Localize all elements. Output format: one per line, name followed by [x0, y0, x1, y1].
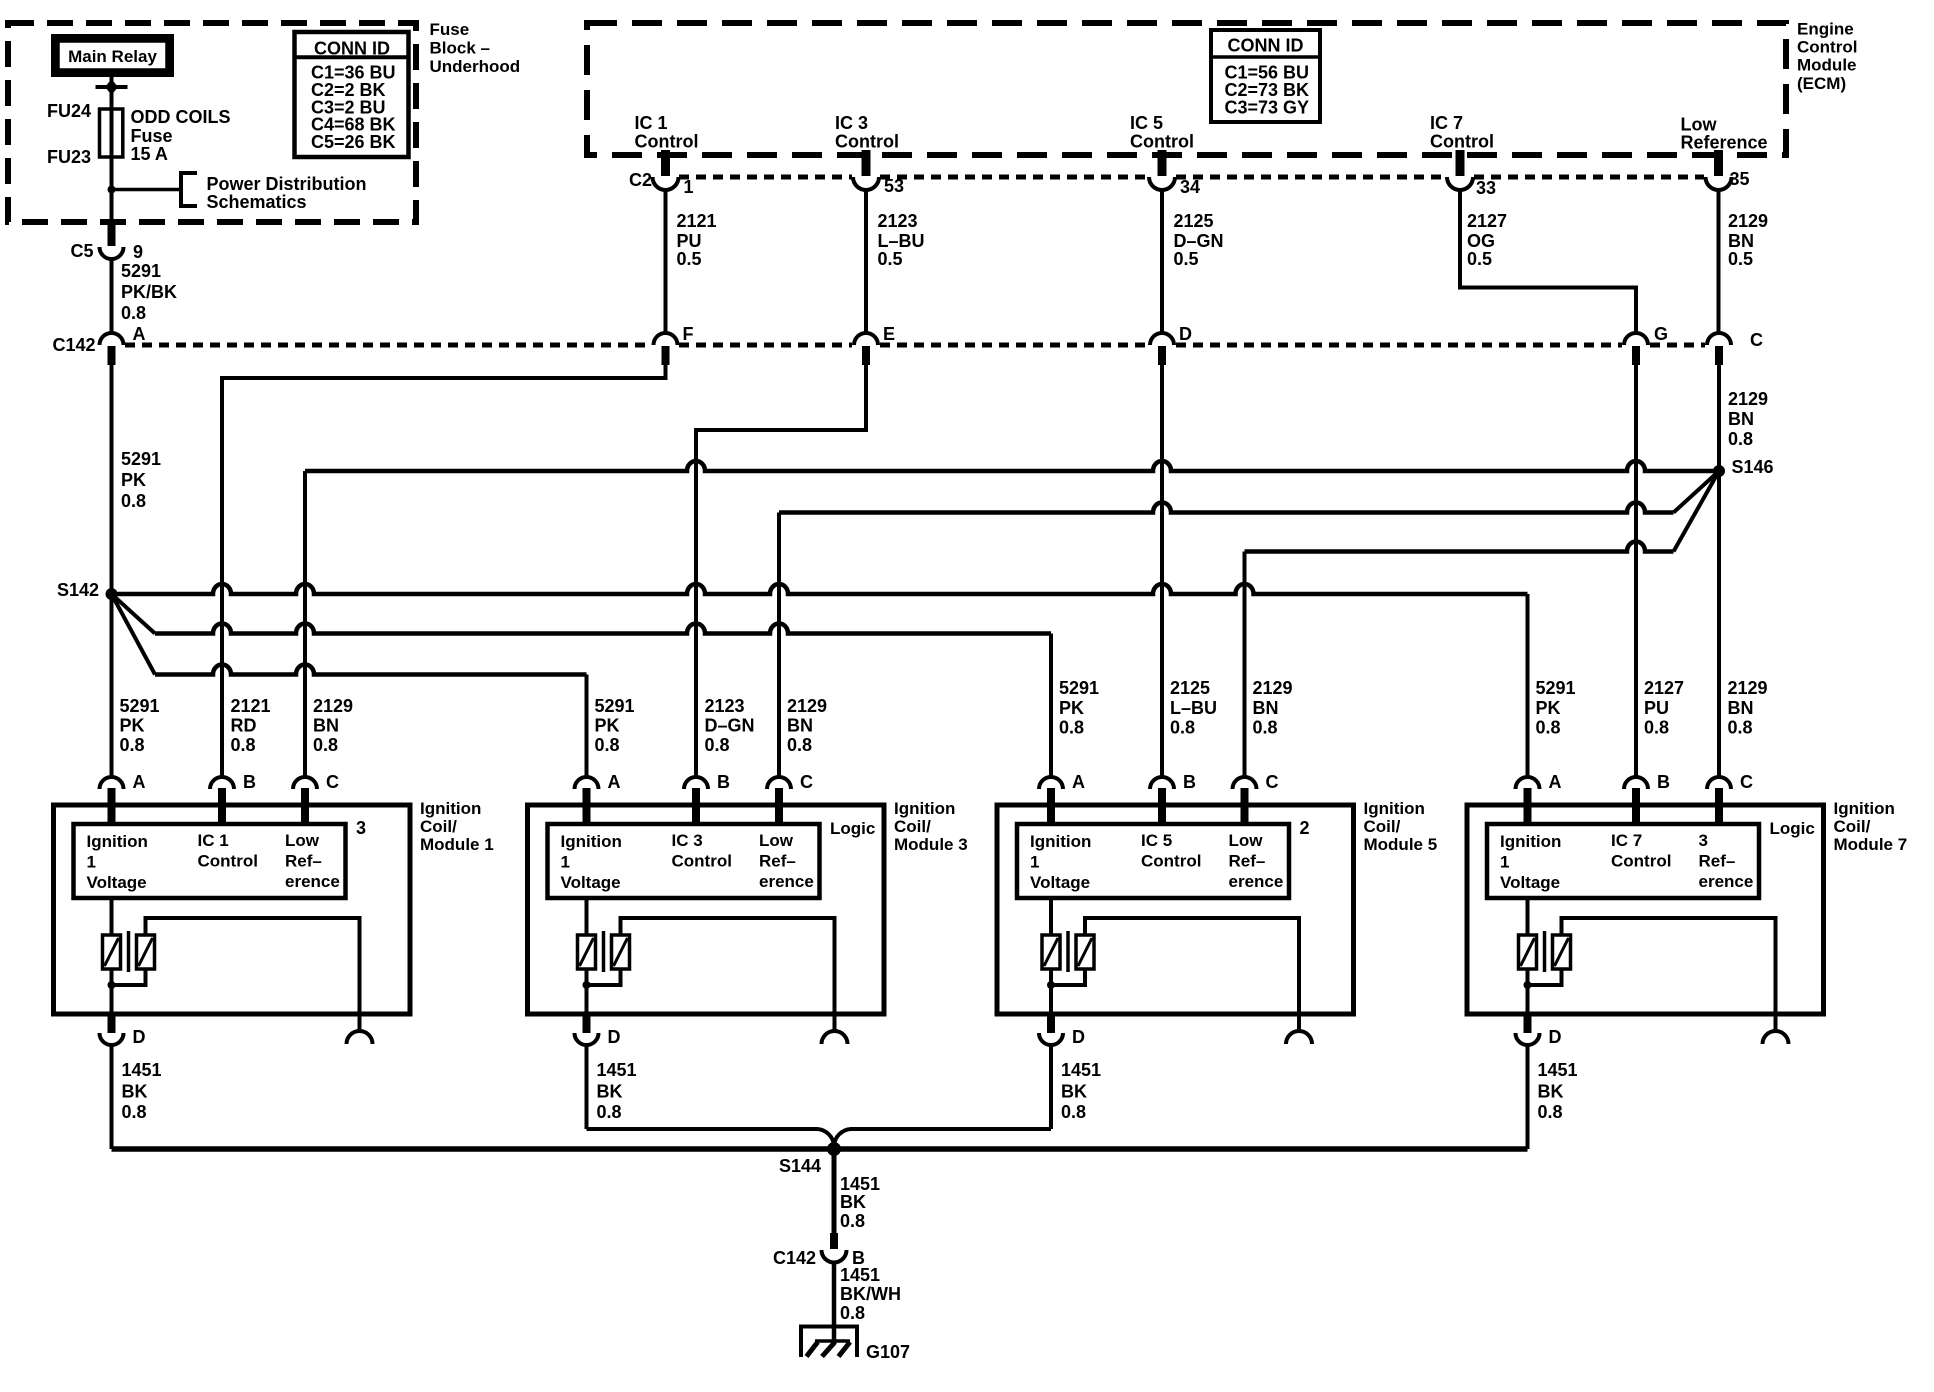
svg-text:Coil/: Coil/ [420, 817, 457, 836]
svg-text:B: B [717, 772, 730, 792]
svg-text:0.8: 0.8 [1728, 718, 1753, 738]
svg-text:2123: 2123 [878, 211, 918, 231]
svg-text:2125: 2125 [1174, 211, 1214, 231]
svg-text:35: 35 [1730, 169, 1750, 189]
svg-text:erence: erence [759, 872, 814, 891]
svg-text:PK: PK [120, 716, 145, 736]
svg-text:Reference: Reference [1681, 133, 1768, 153]
svg-text:Low: Low [759, 831, 794, 850]
svg-text:0.5: 0.5 [677, 249, 702, 269]
svg-text:2129: 2129 [787, 696, 827, 716]
svg-text:C3=73 GY: C3=73 GY [1225, 98, 1310, 118]
svg-text:L–BU: L–BU [1170, 698, 1217, 718]
svg-text:2125: 2125 [1170, 678, 1210, 698]
svg-text:L–BU: L–BU [878, 231, 925, 251]
svg-text:33: 33 [1476, 178, 1496, 198]
svg-text:IC 5: IC 5 [1141, 831, 1172, 850]
svg-text:2127: 2127 [1644, 678, 1684, 698]
svg-text:34: 34 [1180, 177, 1200, 197]
svg-text:A: A [1072, 772, 1085, 792]
svg-text:5291: 5291 [120, 696, 160, 716]
svg-text:Fuse: Fuse [430, 20, 470, 39]
svg-text:E: E [883, 324, 895, 344]
svg-text:5291: 5291 [1059, 678, 1099, 698]
svg-text:B: B [1183, 772, 1196, 792]
svg-text:BK: BK [597, 1082, 623, 1102]
svg-text:ODD COILS: ODD COILS [131, 107, 231, 127]
svg-text:0.8: 0.8 [121, 303, 146, 323]
svg-text:erence: erence [1699, 872, 1754, 891]
svg-text:IC 7: IC 7 [1430, 113, 1463, 133]
svg-text:Ignition: Ignition [1834, 799, 1895, 818]
svg-text:15 A: 15 A [131, 144, 168, 164]
svg-text:C: C [800, 772, 813, 792]
svg-text:5291: 5291 [595, 696, 635, 716]
svg-text:Low: Low [285, 831, 320, 850]
svg-text:G107: G107 [866, 1342, 910, 1362]
svg-text:Coil/: Coil/ [1364, 817, 1401, 836]
svg-text:PU: PU [677, 231, 702, 251]
svg-text:0.8: 0.8 [122, 1102, 147, 1122]
svg-text:Ref–: Ref– [759, 852, 796, 871]
svg-text:S144: S144 [779, 1156, 821, 1176]
svg-text:1: 1 [1500, 853, 1509, 872]
svg-text:Ignition: Ignition [87, 832, 148, 851]
svg-text:Control: Control [1130, 132, 1194, 152]
svg-text:IC 1: IC 1 [635, 113, 668, 133]
svg-text:OG: OG [1467, 231, 1495, 251]
svg-text:Module: Module [1797, 56, 1857, 75]
svg-text:C142: C142 [52, 335, 95, 355]
svg-text:erence: erence [1229, 872, 1284, 891]
svg-text:Ignition: Ignition [420, 799, 481, 818]
svg-text:5291: 5291 [121, 449, 161, 469]
svg-text:BN: BN [313, 716, 339, 736]
svg-text:Ref–: Ref– [285, 852, 322, 871]
svg-text:0.8: 0.8 [1253, 718, 1278, 738]
svg-text:S146: S146 [1732, 457, 1774, 477]
svg-text:53: 53 [884, 176, 904, 196]
svg-text:0.5: 0.5 [1467, 249, 1492, 269]
svg-text:A: A [608, 772, 621, 792]
svg-text:BK: BK [840, 1192, 866, 1212]
svg-text:IC 5: IC 5 [1130, 113, 1163, 133]
svg-text:D: D [1549, 1027, 1562, 1047]
svg-text:2121: 2121 [231, 696, 271, 716]
svg-text:IC 7: IC 7 [1611, 831, 1642, 850]
svg-text:Control: Control [1611, 852, 1671, 871]
svg-text:1451: 1451 [840, 1265, 880, 1285]
svg-text:G: G [1654, 324, 1668, 344]
svg-text:RD: RD [231, 716, 257, 736]
svg-text:Ref–: Ref– [1699, 852, 1736, 871]
svg-text:C2: C2 [629, 170, 652, 190]
svg-text:IC 3: IC 3 [672, 831, 703, 850]
svg-text:1: 1 [1030, 853, 1039, 872]
svg-text:Control: Control [1141, 852, 1201, 871]
svg-text:3: 3 [356, 818, 366, 838]
svg-text:0.8: 0.8 [840, 1211, 865, 1231]
svg-text:IC 3: IC 3 [835, 113, 868, 133]
svg-text:C5: C5 [70, 241, 93, 261]
svg-text:3: 3 [1699, 831, 1708, 850]
svg-text:D–GN: D–GN [705, 716, 755, 736]
svg-text:Module 5: Module 5 [1364, 835, 1438, 854]
svg-text:PK: PK [1059, 698, 1084, 718]
svg-text:Schematics: Schematics [207, 192, 307, 212]
svg-text:A: A [133, 772, 146, 792]
svg-text:1451: 1451 [1061, 1060, 1101, 1080]
svg-text:PK: PK [121, 470, 146, 490]
svg-text:CONN ID: CONN ID [1228, 36, 1304, 56]
svg-text:C142: C142 [773, 1248, 816, 1268]
svg-text:BN: BN [1728, 409, 1754, 429]
svg-text:0.8: 0.8 [120, 735, 145, 755]
svg-text:Voltage: Voltage [561, 873, 621, 892]
svg-text:1451: 1451 [1538, 1060, 1578, 1080]
svg-text:0.8: 0.8 [597, 1102, 622, 1122]
svg-text:Block –: Block – [430, 39, 490, 58]
svg-text:Underhood: Underhood [430, 57, 521, 76]
svg-text:PK/BK: PK/BK [121, 282, 177, 302]
svg-text:Ignition: Ignition [1500, 832, 1561, 851]
svg-text:0.8: 0.8 [1538, 1102, 1563, 1122]
svg-text:Coil/: Coil/ [1834, 817, 1871, 836]
svg-text:Low: Low [1229, 831, 1264, 850]
svg-text:BK: BK [122, 1082, 148, 1102]
svg-text:BN: BN [1728, 231, 1754, 251]
svg-text:PK: PK [595, 716, 620, 736]
svg-text:S142: S142 [57, 580, 99, 600]
svg-text:Power Distribution: Power Distribution [207, 174, 367, 194]
svg-text:BN: BN [1253, 698, 1279, 718]
svg-text:BN: BN [787, 716, 813, 736]
svg-text:0.5: 0.5 [1174, 249, 1199, 269]
svg-text:0.5: 0.5 [878, 249, 903, 269]
svg-text:Ignition: Ignition [1030, 832, 1091, 851]
svg-text:Control: Control [635, 132, 699, 152]
svg-text:2123: 2123 [705, 696, 745, 716]
svg-text:D: D [1072, 1027, 1085, 1047]
svg-text:2127: 2127 [1467, 211, 1507, 231]
svg-text:0.8: 0.8 [1059, 718, 1084, 738]
svg-text:1: 1 [684, 177, 694, 197]
svg-text:2129: 2129 [1253, 678, 1293, 698]
svg-text:2129: 2129 [1728, 211, 1768, 231]
svg-text:2: 2 [1300, 818, 1310, 838]
svg-text:2129: 2129 [313, 696, 353, 716]
svg-text:0.8: 0.8 [231, 735, 256, 755]
svg-text:0.8: 0.8 [705, 735, 730, 755]
svg-text:BK: BK [1538, 1082, 1564, 1102]
svg-text:Ignition: Ignition [1364, 799, 1425, 818]
svg-text:0.8: 0.8 [1170, 718, 1195, 738]
svg-text:BK: BK [1061, 1082, 1087, 1102]
svg-text:C: C [1740, 772, 1753, 792]
svg-text:C: C [326, 772, 339, 792]
svg-text:erence: erence [285, 872, 340, 891]
svg-text:1: 1 [561, 853, 570, 872]
svg-text:0.8: 0.8 [840, 1303, 865, 1323]
svg-text:D: D [608, 1027, 621, 1047]
svg-text:1451: 1451 [840, 1174, 880, 1194]
svg-text:0.8: 0.8 [121, 491, 146, 511]
svg-text:FU24: FU24 [47, 101, 91, 121]
svg-text:Control: Control [1430, 132, 1494, 152]
svg-text:Module 7: Module 7 [1834, 835, 1908, 854]
svg-text:Control: Control [1797, 38, 1857, 57]
svg-text:Module 3: Module 3 [894, 835, 968, 854]
svg-text:1451: 1451 [122, 1060, 162, 1080]
svg-text:0.8: 0.8 [1728, 429, 1753, 449]
svg-text:Ref–: Ref– [1229, 852, 1266, 871]
svg-text:0.8: 0.8 [595, 735, 620, 755]
svg-text:FU23: FU23 [47, 147, 91, 167]
svg-text:Voltage: Voltage [1500, 873, 1560, 892]
svg-text:D: D [1179, 324, 1192, 344]
svg-text:B: B [1657, 772, 1670, 792]
svg-text:Control: Control [672, 852, 732, 871]
svg-text:2129: 2129 [1728, 389, 1768, 409]
svg-text:0.5: 0.5 [1728, 249, 1753, 269]
svg-text:F: F [683, 324, 694, 344]
svg-text:0.8: 0.8 [1644, 718, 1669, 738]
svg-text:2129: 2129 [1728, 678, 1768, 698]
svg-text:B: B [243, 772, 256, 792]
svg-text:BK/WH: BK/WH [840, 1284, 901, 1304]
svg-text:IC 1: IC 1 [198, 831, 229, 850]
svg-text:(ECM): (ECM) [1797, 74, 1846, 93]
svg-text:C: C [1750, 330, 1763, 350]
svg-text:Control: Control [835, 132, 899, 152]
svg-text:CONN ID: CONN ID [314, 39, 390, 59]
svg-text:Ignition: Ignition [894, 799, 955, 818]
svg-text:C5=26 BK: C5=26 BK [311, 132, 396, 152]
svg-text:PK: PK [1536, 698, 1561, 718]
svg-text:BN: BN [1728, 698, 1754, 718]
svg-text:Main Relay: Main Relay [68, 47, 157, 66]
svg-text:Engine: Engine [1797, 20, 1854, 39]
svg-text:Logic: Logic [1770, 819, 1815, 838]
svg-text:Low: Low [1681, 115, 1718, 135]
svg-text:D: D [133, 1027, 146, 1047]
svg-text:0.8: 0.8 [313, 735, 338, 755]
svg-text:A: A [1549, 772, 1562, 792]
svg-text:Coil/: Coil/ [894, 817, 931, 836]
svg-text:C: C [1266, 772, 1279, 792]
svg-text:2121: 2121 [677, 211, 717, 231]
svg-text:1451: 1451 [597, 1060, 637, 1080]
svg-text:PU: PU [1644, 698, 1669, 718]
svg-text:0.8: 0.8 [1061, 1102, 1086, 1122]
svg-text:0.8: 0.8 [1536, 718, 1561, 738]
svg-text:Ignition: Ignition [561, 832, 622, 851]
svg-text:5291: 5291 [121, 261, 161, 281]
svg-text:Voltage: Voltage [1030, 873, 1090, 892]
svg-text:Fuse: Fuse [131, 126, 173, 146]
svg-text:Logic: Logic [830, 819, 875, 838]
svg-text:0.8: 0.8 [787, 735, 812, 755]
svg-text:5291: 5291 [1536, 678, 1576, 698]
svg-text:9: 9 [133, 242, 143, 262]
svg-text:A: A [133, 324, 146, 344]
svg-text:Voltage: Voltage [87, 873, 147, 892]
svg-text:D–GN: D–GN [1174, 231, 1224, 251]
svg-text:Module 1: Module 1 [420, 835, 494, 854]
svg-text:1: 1 [87, 853, 96, 872]
svg-text:Control: Control [198, 852, 258, 871]
